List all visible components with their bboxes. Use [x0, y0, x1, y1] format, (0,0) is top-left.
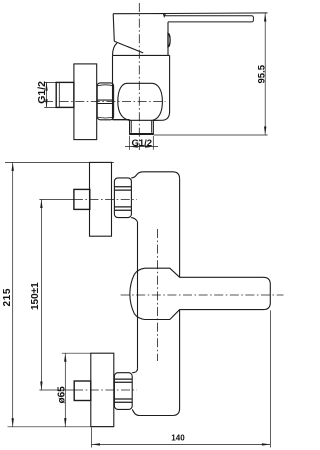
215 extension top: [5, 161, 114, 163]
body B2 right edge upper: [179, 179, 181, 277]
140 arrows: [92, 443, 271, 445]
Ø65 arrows: [64, 353, 66, 426]
140 dim line: [92, 443, 271, 445]
nipple P1 (side view): [56, 82, 74, 107]
95.5 dim line: [264, 13, 266, 135]
bottom inlet nut N3: [114, 373, 132, 410]
body bottom-left ledge: [113, 119, 130, 121]
body B2 top edge with corners: [131, 172, 179, 179]
150±1 arrows: [40, 200, 42, 391]
lever pivot ellipse: [168, 33, 170, 47]
lever L1 slab: [164, 16, 253, 22]
95.5 extension bottom: [154, 134, 268, 136]
nut N1 facet arcs: [98, 85, 114, 118]
cap top edge: [113, 14, 165, 17]
body left edge: [112, 55, 114, 119]
nut N1 (side view): [97, 83, 113, 120]
bottom inlet nipple P3: [74, 381, 91, 401]
top inlet nut N2: [114, 178, 131, 218]
svg-text:150±1: 150±1: [30, 282, 41, 310]
215 arrows: [12, 162, 14, 426]
top inlet axis: [39, 199, 74, 201]
svg-text:95.5: 95.5: [256, 64, 267, 83]
body right edge: [153, 55, 169, 120]
nipple P1 thread line: [58, 83, 60, 108]
body top joint: [113, 54, 170, 56]
bottom inlet flange F3: [91, 353, 114, 426]
140 extension right: [269, 310, 271, 447]
bottom inlet axis: [39, 389, 74, 391]
cap right edge: [167, 22, 169, 56]
150±1 dim line: [40, 200, 42, 391]
outlet O1: [130, 120, 154, 134]
outlet bottom: [129, 133, 154, 135]
215 dim line: [12, 162, 14, 426]
lever axis dash-dot: [121, 294, 284, 296]
nut N1 center facet lines: [97, 100, 113, 103]
body B2 bottom edge with flare: [132, 409, 172, 415]
G1/2 outlet dim line: [125, 146, 158, 148]
cartridge ball: [118, 83, 163, 120]
140 extension left: [91, 428, 93, 448]
top inlet nipple P2: [74, 189, 90, 209]
body B2 left edge bottom flare: [132, 369, 137, 373]
body B2 left edge mid: [137, 222, 139, 369]
side axis (horizontal dash-dot): [44, 101, 166, 103]
cap bottom slant: [114, 41, 143, 53]
body B2 right edge lower: [173, 310, 180, 416]
Ø65 extension top: [62, 352, 91, 354]
G1/2 dim line: [46, 82, 48, 107]
top inlet flange F2: [90, 162, 112, 236]
lever L1 top line: [163, 12, 267, 15]
side centerline (vertical dash-dot): [138, 3, 140, 150]
svg-text:215: 215: [2, 288, 13, 307]
boss centerline dash-dot: [156, 229, 158, 361]
cap left edge: [113, 14, 114, 42]
215/Ø65 extension bottom: [8, 426, 114, 428]
G1/2 dim extension lines: [44, 82, 56, 107]
svg-text:G1/2: G1/2: [132, 138, 153, 149]
wall flange F1 (side view): [74, 64, 97, 140]
G1/2 outlet extension lines: [130, 136, 154, 150]
95.5 arrows: [264, 13, 266, 135]
outlet thread lines: [131, 120, 151, 133]
boss and lever outline: [130, 268, 270, 319]
body B2 left edge upper flare: [131, 218, 137, 222]
svg-text:140: 140: [171, 433, 185, 442]
nut N2 facet lines: [115, 187, 132, 211]
nut N3 facet lines: [115, 379, 132, 402]
cap skirt arc: [113, 43, 117, 55]
G1/2 dim arrows: [45, 82, 47, 107]
G1/2 outlet arrows: [130, 145, 154, 147]
Ø65 dim line: [64, 353, 66, 426]
svg-text:G1/2: G1/2: [36, 81, 48, 104]
svg-text:ø65: ø65: [57, 386, 68, 404]
